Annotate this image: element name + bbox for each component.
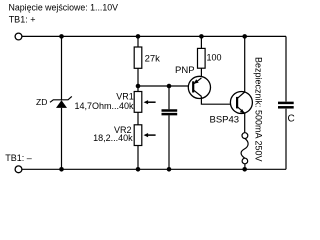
terminal TB1+	[15, 33, 22, 40]
svg-text:Bezpiecznik: 500mA 250V: Bezpiecznik: 500mA 250V	[254, 57, 264, 162]
svg-text:Napięcie wejściowe: 1...10V: Napięcie wejściowe: 1...10V	[9, 2, 119, 12]
wire Q2 collector	[244, 36, 246, 92]
svg-text:PNP: PNP	[175, 65, 195, 76]
potentiometer VR1	[134, 92, 155, 113]
zener diode ZD	[50, 96, 72, 108]
terminal TB1-	[15, 166, 22, 173]
resistor 100	[198, 48, 206, 68]
svg-text:18,2...40k: 18,2...40k	[93, 133, 133, 143]
svg-text:27k: 27k	[145, 54, 161, 65]
node base net / filter cap	[167, 84, 172, 89]
wire fuse to bottom rail	[244, 164, 246, 170]
wire PNP collector to Q2 base	[201, 96, 237, 104]
potentiometer VR2	[134, 125, 155, 146]
capacitor C	[278, 103, 294, 107]
wire base net	[138, 85, 193, 87]
node bottom rail / filter cap	[167, 167, 172, 172]
wire R100 to PNP emitter	[200, 68, 202, 78]
svg-text:ZD: ZD	[36, 97, 47, 107]
wire filter cap lower	[168, 115, 170, 169]
node top rail / zener	[59, 34, 64, 39]
fuse F1 breaker	[241, 133, 248, 164]
svg-text:100: 100	[207, 52, 222, 62]
svg-text:C: C	[288, 114, 295, 125]
wire zener branch lower	[61, 108, 63, 169]
wire bottom rail	[22, 168, 286, 170]
wire Q2 emitter to fuse	[244, 113, 246, 133]
wire 27k top	[137, 36, 139, 47]
wire 27k bottom	[137, 68, 139, 91]
svg-text:BSP43: BSP43	[210, 115, 240, 126]
svg-text:VR1: VR1	[116, 91, 134, 101]
transistor Q2 BSP43	[230, 92, 252, 114]
node 27k / VR1 / base wire	[136, 84, 141, 89]
wire right rail upper	[285, 36, 287, 101]
svg-text:TB1: +: TB1: +	[9, 14, 36, 24]
wire VR2 bottom	[137, 146, 139, 170]
node top rail / Q2 collector	[242, 34, 247, 39]
resistor 27k	[134, 47, 142, 68]
node bottom rail / zener	[59, 167, 64, 172]
wire filter cap upper	[168, 86, 170, 109]
node bottom rail / fuse	[242, 167, 247, 172]
transistor Q1 PNP	[188, 76, 210, 98]
wire zener branch upper	[61, 36, 63, 100]
node top rail / 27k	[136, 34, 141, 39]
node top rail / R100	[199, 34, 204, 39]
wire top rail	[22, 35, 286, 37]
wire right rail lower	[285, 109, 287, 170]
wire VR1-VR2	[137, 112, 139, 125]
node bottom rail / VR2	[136, 167, 141, 172]
wire R100 top	[200, 36, 202, 48]
svg-text:TB1: –: TB1: –	[5, 153, 32, 163]
svg-text:14,7Ohm...40k: 14,7Ohm...40k	[75, 101, 135, 111]
capacitor filter	[162, 111, 178, 115]
